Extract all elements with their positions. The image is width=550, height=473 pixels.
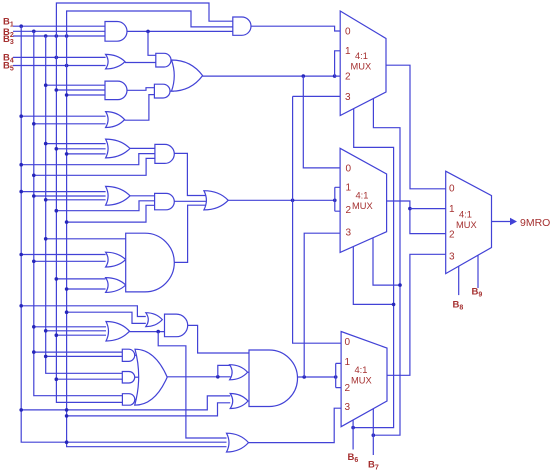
- or-gate G4: [106, 112, 125, 128]
- wire bus v5 with top run to gate T2 input 2: [67, 11, 233, 447]
- svg-text:2: 2: [346, 205, 352, 216]
- or-gate G7: [106, 252, 126, 267]
- node B5 label: [3, 61, 14, 73]
- wire G4 input 2 from v2: [32, 122, 106, 126]
- wire G7 input 1 from v1: [19, 253, 105, 257]
- wire G1 output to T2 input 3: [127, 30, 233, 56]
- wire M1 select 1 down to B6 line: [351, 109, 393, 430]
- wire G3 input 1 from v3: [44, 83, 105, 87]
- svg-text:1: 1: [346, 183, 352, 194]
- wire O5 input 2 dot on v5 crossing: [65, 440, 69, 444]
- wire G10L output to A9 input 2 with branch to O5 input 1: [130, 330, 227, 438]
- or-gate G6: [106, 186, 130, 205]
- wire A2b output to O1 input 2: [170, 90, 174, 92]
- wire B5 input: [13, 64, 106, 68]
- and-gate BA2 big: [249, 350, 298, 407]
- svg-text:4:1: 4:1: [355, 51, 368, 61]
- svg-text:MUX: MUX: [351, 62, 372, 72]
- or-gate O5: [227, 433, 249, 452]
- svg-text:3: 3: [345, 92, 351, 103]
- wire Gd1 output stub: [135, 354, 139, 356]
- svg-text:4:1: 4:1: [355, 365, 368, 375]
- wire G5 input 1 from v3: [44, 142, 106, 146]
- node B3 label: [3, 34, 14, 46]
- or-gate G2 (B4,B5): [106, 54, 125, 69]
- node 9MRO output label: [520, 217, 550, 229]
- and-gate Gd1: [122, 349, 134, 361]
- mux M3 4:1 bottom: [341, 332, 387, 427]
- wire B1 input: [13, 24, 105, 28]
- svg-text:B9: B9: [472, 287, 483, 299]
- mux M1 4:1 top: [340, 11, 386, 116]
- and-gate Gd3: [122, 394, 134, 406]
- wire G3 output to A2b input 1: [127, 88, 154, 91]
- and-gate T2 top-right: [233, 17, 251, 35]
- wire G10L input 3 from v4: [55, 333, 107, 337]
- svg-text:B8: B8: [453, 300, 464, 312]
- and-gate G1 (B1,B2,B3): [105, 22, 127, 42]
- mux M2 4:1 middle: [340, 148, 387, 252]
- node B7 label: [368, 460, 379, 472]
- wire W1 from v1 to A5 input 2: [19, 154, 155, 167]
- wire M4 output with arrow: [492, 218, 518, 225]
- wire O3 branch vertical to MUX1 input 3 and MUX3 input 0: [293, 96, 342, 343]
- svg-text:0: 0: [449, 183, 455, 194]
- or-gate G10b: [146, 313, 163, 327]
- wire G4 output to A2b input 2: [125, 95, 155, 121]
- node B9 label: [472, 287, 483, 299]
- wire A2 output to O1 input 1: [171, 59, 174, 61]
- svg-text:1: 1: [449, 204, 455, 215]
- svg-text:MUX: MUX: [352, 201, 373, 211]
- wire G4 input 1 from v1: [19, 114, 105, 118]
- wire W3 from v4 to A6 input 2: [55, 201, 155, 213]
- wire SO2 riser 1 from v1: [19, 396, 230, 412]
- wire G10b input 2 from v5: [65, 310, 146, 323]
- wire T2 output to MUX1 input 0: [251, 26, 340, 31]
- wire bus v1: [21, 26, 226, 442]
- wire bus v3: [46, 36, 123, 373]
- node B8 label: [453, 300, 464, 312]
- wire BA output up to O3 input 3: [174, 205, 207, 262]
- wire G10L input 2 from v3: [44, 329, 106, 333]
- wire B6 stub: [352, 420, 354, 450]
- and-gate BA big: [126, 233, 175, 292]
- svg-text:9MRO: 9MRO: [520, 217, 550, 229]
- node B6 label: [348, 452, 359, 464]
- wire O4 output to SO1 with riser: [167, 365, 230, 378]
- and-gate A5: [155, 144, 174, 163]
- node B1 label: [3, 17, 14, 29]
- wire G3 input 2 from v4: [55, 88, 106, 92]
- wire G2 output to A2 input 2: [125, 62, 156, 64]
- svg-text:2: 2: [345, 383, 351, 394]
- and-gate A6: [155, 193, 175, 209]
- and-gate A2: [156, 53, 171, 67]
- wire BA input 1 from v3: [44, 237, 126, 241]
- wire A5 output down to O3 input 1: [174, 153, 207, 195]
- wire B7 stub: [372, 409, 374, 455]
- svg-text:4:1: 4:1: [459, 210, 472, 220]
- wire G6 input 3 from v3: [44, 198, 106, 202]
- svg-text:3: 3: [346, 227, 352, 238]
- svg-text:4:1: 4:1: [356, 191, 369, 201]
- and-gate Gd2: [122, 372, 134, 384]
- svg-text:B6: B6: [348, 452, 359, 464]
- wire O3 output to MUX2 inputs 1,2 with branch: [228, 187, 340, 211]
- wire G8 input 1 from v4: [55, 277, 106, 281]
- or-gate O4 big: [135, 349, 168, 405]
- wire SO2 riser 2 from v5: [65, 403, 230, 418]
- or-gate O3: [204, 191, 228, 210]
- wire M2 output to MUX4 inputs 1,2: [387, 201, 446, 234]
- or-gate O1 big: [172, 60, 203, 91]
- or-gate G10L: [106, 322, 130, 342]
- wire A6 output to O3 input 2: [174, 200, 206, 202]
- svg-text:1: 1: [345, 46, 351, 57]
- or-gate SO2: [230, 394, 248, 409]
- or-gate G5: [106, 139, 130, 158]
- wire M2 select 2 to sel bus: [373, 238, 402, 287]
- wire W2 from v2 to A5 input 3: [32, 158, 155, 177]
- wire bus v2: [34, 31, 123, 395]
- node B2 label: [3, 27, 14, 39]
- wire B4 input: [13, 56, 106, 60]
- wire G6 input 1 from v1: [19, 190, 105, 194]
- wire Gd2 output stub: [135, 376, 140, 378]
- wire M1 output to MUX4 input 0: [386, 65, 446, 189]
- or-gate G8: [106, 278, 126, 293]
- svg-text:MUX: MUX: [351, 375, 372, 385]
- svg-text:0: 0: [345, 26, 351, 37]
- wire G5 input 2 from v4: [55, 147, 106, 151]
- svg-text:3: 3: [345, 402, 351, 413]
- svg-text:B7: B7: [368, 460, 379, 472]
- wire Gd3 output stub: [135, 399, 139, 401]
- wire Gd1 input 2 from v3: [44, 355, 122, 359]
- wire BA2 output to MUX3 inputs 1,2 with riser to MUX2 input 3: [298, 363, 342, 387]
- wire O1 branch down to MUX2 input 0: [303, 76, 340, 168]
- wire Gd2 input 2 from v4: [55, 377, 123, 381]
- wire bus v4 with top run to gate T2 input 1: [56, 3, 232, 402]
- wire G8 input 2 from v5: [65, 287, 106, 291]
- svg-text:1: 1: [345, 357, 351, 368]
- wire O1 output to MUX1 inputs 1,2 and down-branch: [203, 51, 341, 78]
- wire G10b input 1 from v1: [19, 304, 145, 317]
- wire A9 output down to BA2 input 1: [188, 325, 249, 353]
- wire Gd1 input 1 from v2: [32, 350, 122, 354]
- wire B8 stub: [458, 266, 460, 295]
- node B4 label: [3, 53, 14, 65]
- wire G6 input 2 from v2: [32, 194, 106, 198]
- and-gate A9: [165, 314, 188, 337]
- svg-text:3: 3: [449, 251, 455, 262]
- wire G10L input 1 from v2: [32, 325, 106, 329]
- svg-text:0: 0: [346, 164, 352, 175]
- wire M3 output up to MUX4 input 3: [387, 254, 446, 375]
- wire G6 output to A6 input 1: [130, 195, 155, 197]
- svg-text:2: 2: [345, 72, 351, 83]
- and-gate A2b: [154, 84, 170, 98]
- wire O5 output to MUX3 input 3: [249, 408, 342, 442]
- svg-text:MUX: MUX: [456, 220, 477, 230]
- svg-text:0: 0: [345, 337, 351, 348]
- or-gate SO1: [230, 365, 248, 380]
- wire B9 stub: [477, 255, 479, 288]
- svg-text:2: 2: [449, 229, 455, 240]
- wire B2 input: [13, 30, 105, 34]
- wire B3 input: [13, 34, 105, 38]
- wire SO1 output to BA2 input 2: [248, 371, 249, 373]
- wire G3 input 3 from v5: [65, 93, 105, 97]
- and-gate G3: [105, 81, 127, 100]
- wire M1 select 2 down to B7 line: [372, 99, 401, 438]
- wire M2 select 1 to sel bus: [353, 247, 395, 307]
- mux M4 4:1 output: [446, 171, 492, 273]
- wire G5 output to A5 input 1: [130, 147, 155, 149]
- wire W4 from v5 to A6 input 3: [65, 205, 155, 224]
- wire G5 input 3 from v5: [65, 152, 106, 156]
- wire BA2 riser to MUX2 input 3: [304, 233, 340, 377]
- wire G7 input 2 from v2: [32, 260, 106, 264]
